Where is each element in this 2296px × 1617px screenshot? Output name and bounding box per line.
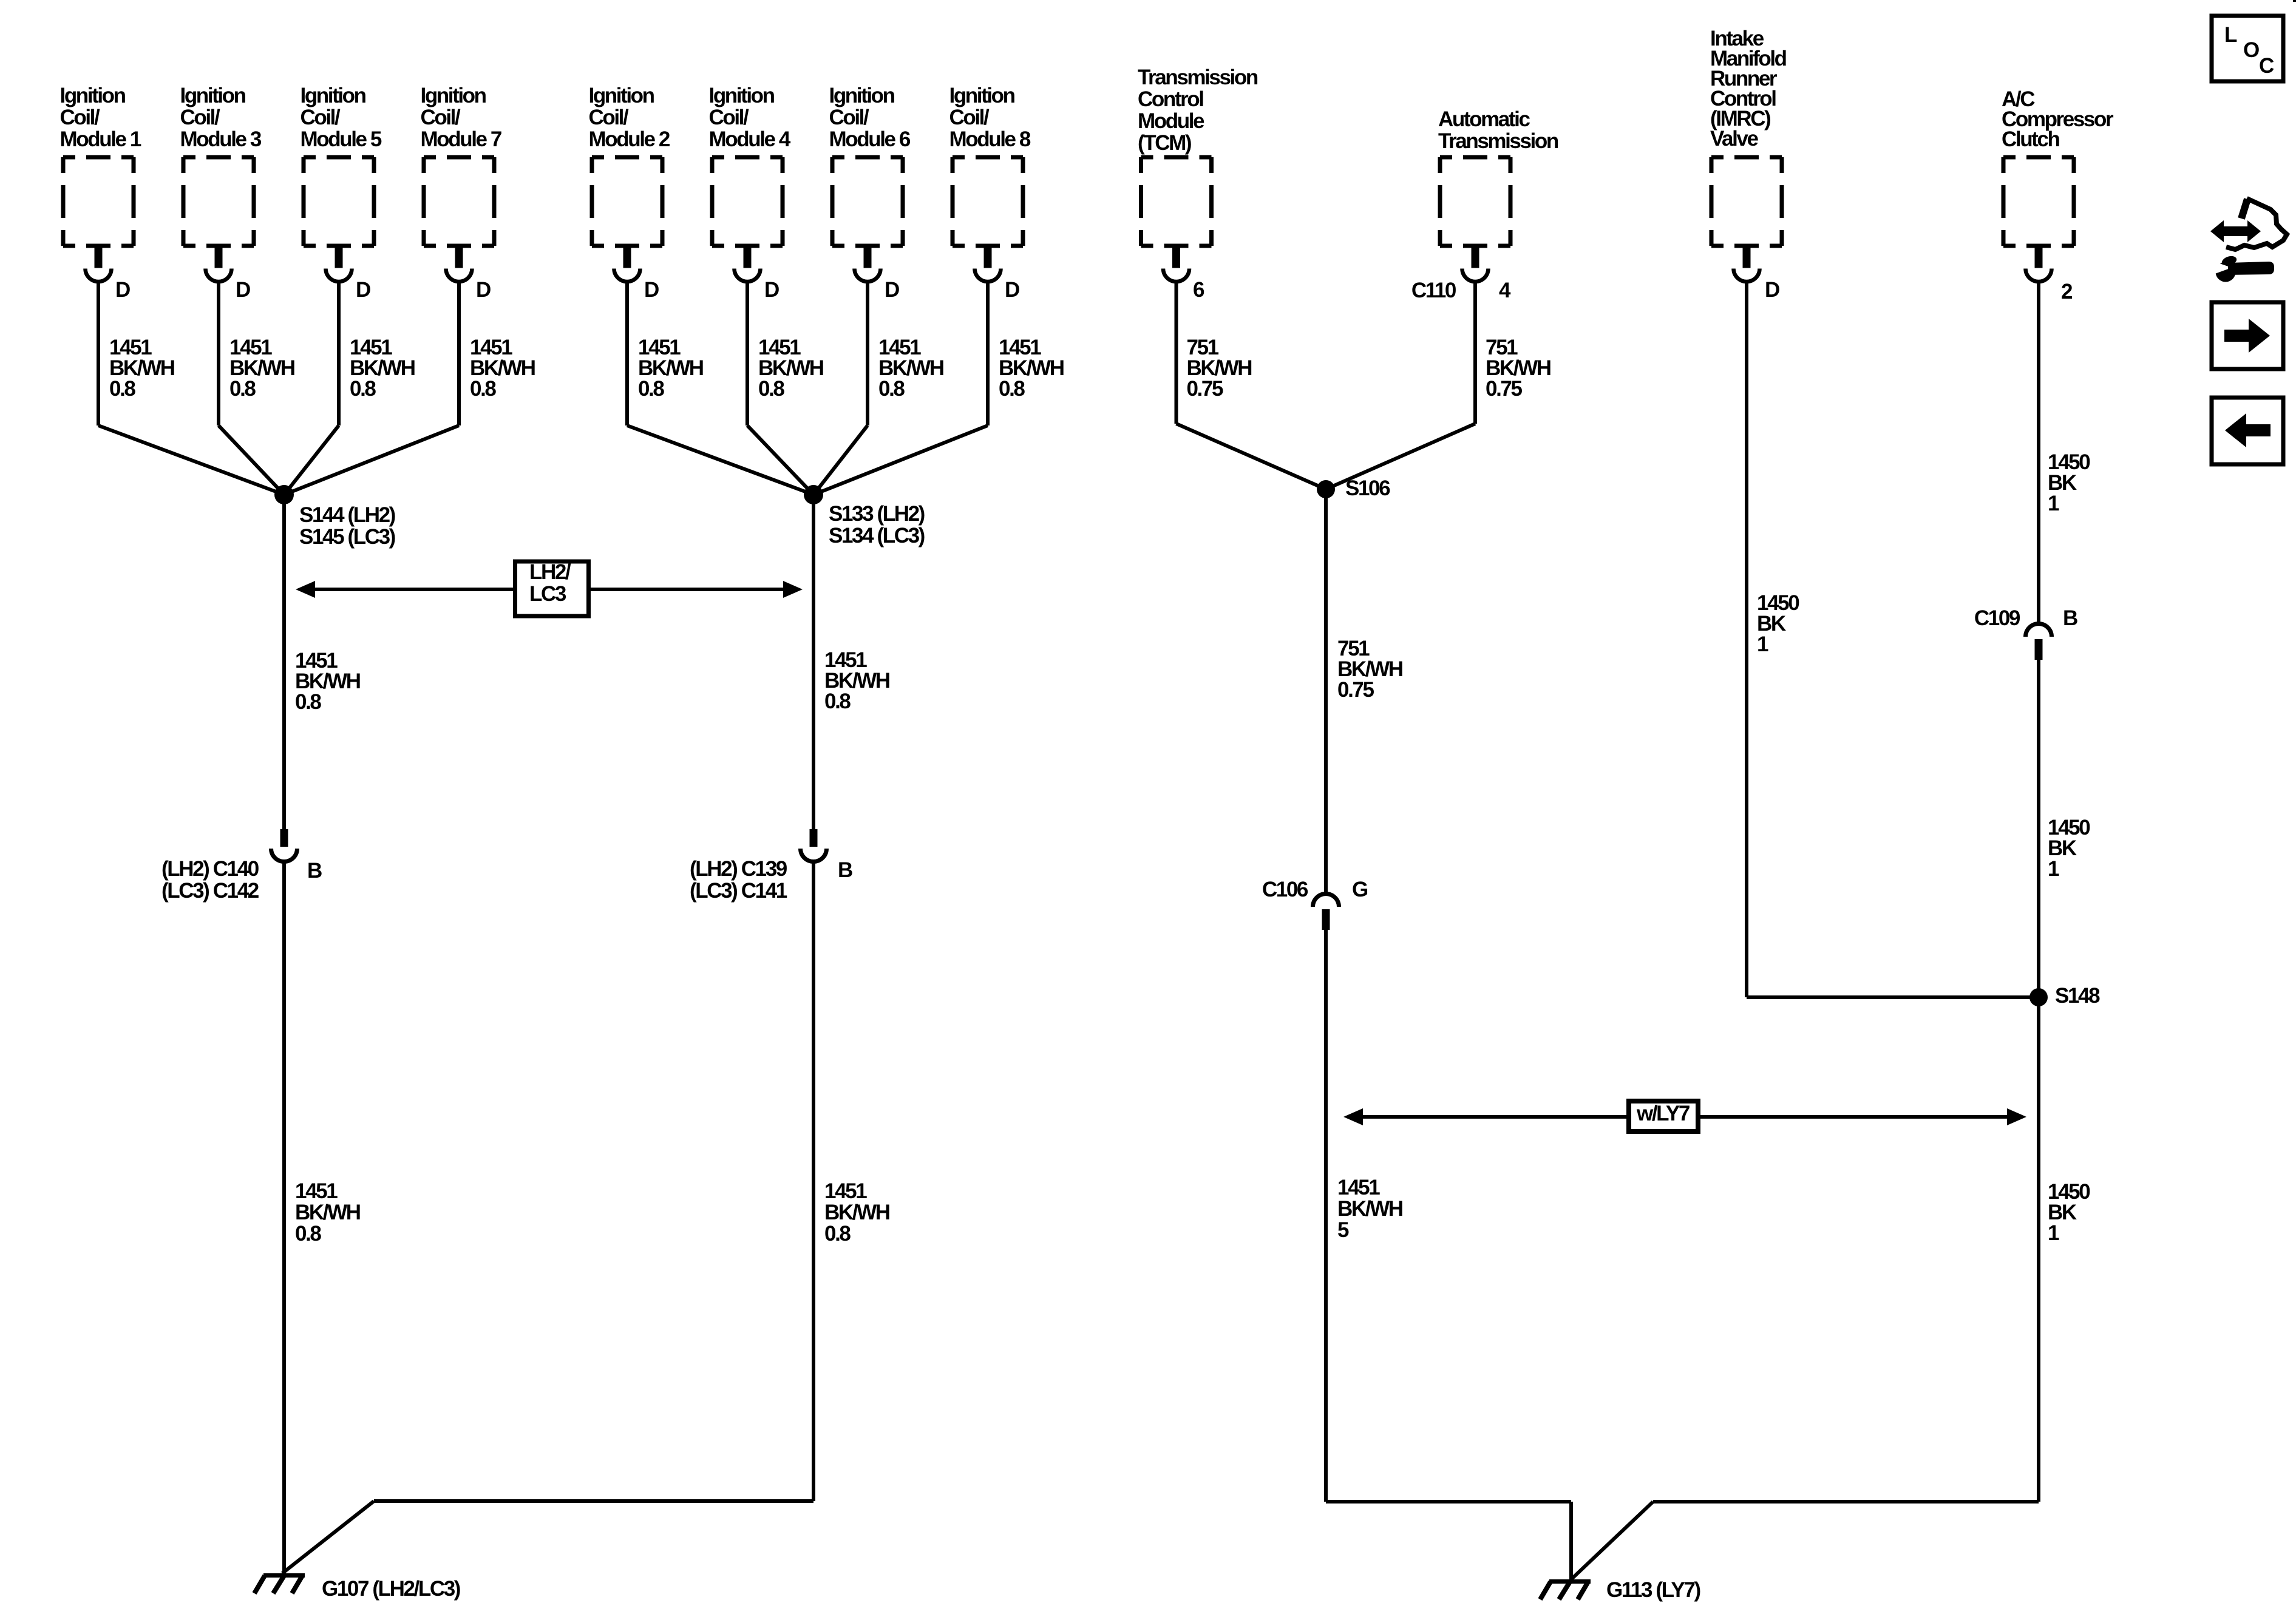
svg-text:BK/WH: BK/WH: [824, 1201, 889, 1224]
svg-text:Control: Control: [1138, 87, 1203, 111]
svg-text:0.8: 0.8: [999, 377, 1025, 401]
svg-text:Ignition: Ignition: [60, 84, 126, 107]
svg-text:Module 1: Module 1: [60, 127, 141, 151]
svg-text:Ignition: Ignition: [589, 84, 654, 107]
svg-text:C106: C106: [1262, 878, 1308, 901]
svg-text:Coil/: Coil/: [829, 106, 870, 129]
svg-text:1: 1: [2048, 1221, 2059, 1245]
svg-text:D: D: [115, 278, 130, 302]
svg-text:0.8: 0.8: [295, 1222, 321, 1246]
svg-text:Module: Module: [1138, 109, 1204, 133]
svg-text:S145 (LC3): S145 (LC3): [299, 525, 395, 549]
svg-text:1: 1: [2048, 857, 2059, 881]
svg-text:G113 (LY7): G113 (LY7): [1606, 1578, 1700, 1602]
svg-text:4: 4: [1499, 279, 1511, 302]
svg-text:Coil/: Coil/: [301, 106, 341, 129]
svg-text:Coil/: Coil/: [60, 106, 101, 129]
svg-text:(TCM): (TCM): [1138, 131, 1191, 155]
svg-text:0.8: 0.8: [878, 377, 905, 401]
svg-text:0.8: 0.8: [229, 377, 256, 401]
svg-text:0.8: 0.8: [638, 377, 664, 401]
svg-text:Coil/: Coil/: [949, 106, 990, 129]
svg-text:Module 5: Module 5: [301, 127, 382, 151]
svg-text:S134 (LC3): S134 (LC3): [829, 524, 925, 547]
svg-text:BK/WH: BK/WH: [295, 1201, 360, 1224]
svg-text:1451: 1451: [1337, 1176, 1380, 1199]
svg-text:Ignition: Ignition: [949, 84, 1015, 107]
svg-text:1: 1: [1757, 632, 1768, 656]
svg-text:Ignition: Ignition: [301, 84, 366, 107]
svg-text:Clutch: Clutch: [2002, 127, 2060, 151]
svg-text:L: L: [2224, 23, 2237, 47]
svg-text:D: D: [644, 278, 659, 302]
svg-text:0.75: 0.75: [1486, 377, 1522, 401]
svg-text:5: 5: [1337, 1218, 1349, 1242]
svg-text:(LC3) C142: (LC3) C142: [161, 879, 259, 903]
svg-text:S144 (LH2): S144 (LH2): [299, 503, 395, 527]
svg-text:(LH2) C140: (LH2) C140: [161, 857, 259, 881]
svg-text:D: D: [236, 278, 250, 302]
svg-text:Ignition: Ignition: [180, 84, 246, 107]
svg-text:Coil/: Coil/: [709, 106, 750, 129]
svg-text:LH2/: LH2/: [529, 560, 571, 584]
svg-text:0.75: 0.75: [1337, 678, 1374, 702]
svg-text:Automatic: Automatic: [1438, 107, 1530, 131]
svg-text:0.8: 0.8: [350, 377, 376, 401]
svg-text:6: 6: [1193, 278, 1204, 302]
svg-text:BK/WH: BK/WH: [1337, 1197, 1402, 1221]
svg-text:B: B: [838, 858, 852, 882]
svg-text:Module 4: Module 4: [709, 127, 791, 151]
svg-text:G107 (LH2/LC3): G107 (LH2/LC3): [322, 1577, 460, 1601]
svg-text:2: 2: [2061, 280, 2073, 303]
svg-text:Ignition: Ignition: [709, 84, 775, 107]
svg-text:Module 2: Module 2: [589, 127, 670, 151]
svg-text:0.8: 0.8: [470, 377, 496, 401]
svg-text:S148: S148: [2055, 984, 2100, 1008]
svg-text:Valve: Valve: [1710, 127, 1758, 151]
svg-text:0.8: 0.8: [824, 1222, 851, 1246]
svg-text:G: G: [1352, 878, 1368, 901]
svg-text:1451: 1451: [824, 1179, 867, 1203]
svg-text:Module 3: Module 3: [180, 127, 262, 151]
svg-text:D: D: [356, 278, 370, 302]
svg-text:D: D: [764, 278, 779, 302]
svg-text:D: D: [885, 278, 899, 302]
svg-text:0.8: 0.8: [295, 690, 321, 714]
svg-text:D: D: [1765, 278, 1779, 302]
svg-text:C109: C109: [1974, 606, 2020, 630]
svg-text:Module 8: Module 8: [949, 127, 1031, 151]
svg-text:0.8: 0.8: [824, 690, 851, 713]
svg-text:Ignition: Ignition: [421, 84, 486, 107]
svg-text:S133 (LH2): S133 (LH2): [829, 502, 925, 526]
svg-text:0.8: 0.8: [758, 377, 784, 401]
svg-text:C: C: [2259, 54, 2274, 78]
svg-text:Transmission: Transmission: [1438, 129, 1558, 153]
svg-text:Transmission: Transmission: [1138, 66, 1258, 89]
svg-text:1: 1: [2048, 492, 2059, 515]
svg-text:Coil/: Coil/: [180, 106, 221, 129]
svg-text:Coil/: Coil/: [421, 106, 461, 129]
svg-text:(LH2) C139: (LH2) C139: [690, 857, 787, 881]
svg-text:0.75: 0.75: [1187, 377, 1223, 401]
svg-text:S106: S106: [1345, 476, 1390, 500]
svg-text:(LC3) C141: (LC3) C141: [690, 879, 787, 903]
svg-text:LC3: LC3: [529, 582, 566, 606]
svg-text:Coil/: Coil/: [589, 106, 630, 129]
svg-text:D: D: [1005, 278, 1019, 302]
svg-text:Module 6: Module 6: [829, 127, 911, 151]
svg-text:C110: C110: [1411, 279, 1456, 302]
svg-text:B: B: [2063, 606, 2077, 630]
svg-text:Module 7: Module 7: [421, 127, 501, 151]
svg-text:O: O: [2243, 38, 2259, 62]
svg-text:w/LY7: w/LY7: [1636, 1102, 1690, 1125]
svg-text:B: B: [307, 859, 322, 883]
svg-text:Ignition: Ignition: [829, 84, 895, 107]
svg-text:0.8: 0.8: [109, 377, 135, 401]
svg-text:D: D: [476, 278, 491, 302]
svg-text:1451: 1451: [295, 1179, 338, 1203]
